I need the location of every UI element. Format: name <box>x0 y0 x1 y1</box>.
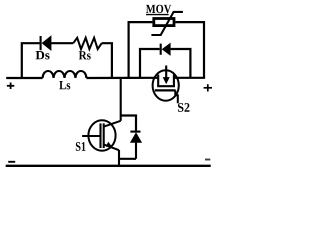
terminal + left <box>7 85 14 87</box>
wire diode loop bottom <box>119 158 136 160</box>
terminal - right <box>205 159 210 161</box>
inductor Ls <box>43 71 87 78</box>
wire S2 drain stub <box>165 66 167 78</box>
wire diode D1 lead lower <box>135 142 137 159</box>
varistor MOV diagonal <box>151 12 183 35</box>
mosfet S2 right contact bar <box>173 75 175 87</box>
igbt S1 gate bar <box>99 123 101 148</box>
mosfet S2 left contact bar <box>157 75 159 87</box>
mosfet S2 gate bar <box>155 89 176 91</box>
igbt S1 emitter arrow <box>106 142 113 147</box>
diode Ds triangle <box>42 35 52 51</box>
label Rs <box>79 51 91 59</box>
wire inner diode loop right <box>171 49 191 78</box>
diode D2 triangle <box>162 43 171 56</box>
terminal - left <box>8 161 15 163</box>
label Ds <box>36 51 50 59</box>
wire MOV loop right <box>175 22 204 78</box>
mosfet S2 channel line <box>157 85 175 87</box>
mosfet S2 gate lead <box>175 90 178 103</box>
wire inner diode loop left <box>140 49 160 78</box>
wire S1 emitter vertical <box>118 150 120 166</box>
resistor Rs <box>73 38 102 49</box>
mosfet S2 circle <box>153 70 179 100</box>
diode D1 bar <box>130 131 140 133</box>
igbt S1 emitter diagonal <box>104 145 119 151</box>
wire top rail <box>6 77 42 79</box>
igbt S1 gate lead <box>82 135 99 137</box>
diode Ds bar <box>40 36 42 50</box>
wire snubber left leg <box>22 43 40 78</box>
wire MOV loop left <box>129 22 153 78</box>
wire diode loop top <box>121 116 136 131</box>
label Ls <box>59 81 70 89</box>
wire snubber right leg <box>102 43 112 78</box>
igbt S1 circle <box>88 120 115 150</box>
mosfet S2 body arrow <box>163 77 170 84</box>
label MOV underline <box>146 14 169 16</box>
label S1 <box>76 142 86 151</box>
wire bottom rail <box>6 165 211 167</box>
diode D2 bar <box>160 44 162 55</box>
wire S2 right lead <box>174 77 205 79</box>
wire snubber mid <box>51 42 73 44</box>
igbt S1 channel bar <box>103 123 105 148</box>
wire top rail right of Ls <box>86 77 159 79</box>
label MOV <box>146 5 171 13</box>
diode D1 triangle <box>130 132 142 143</box>
label S2 <box>178 103 190 112</box>
terminal + right <box>204 87 212 89</box>
wire S1 collector vertical <box>120 78 122 121</box>
igbt S1 collector diagonal <box>104 121 121 127</box>
varistor MOV box <box>154 19 174 26</box>
